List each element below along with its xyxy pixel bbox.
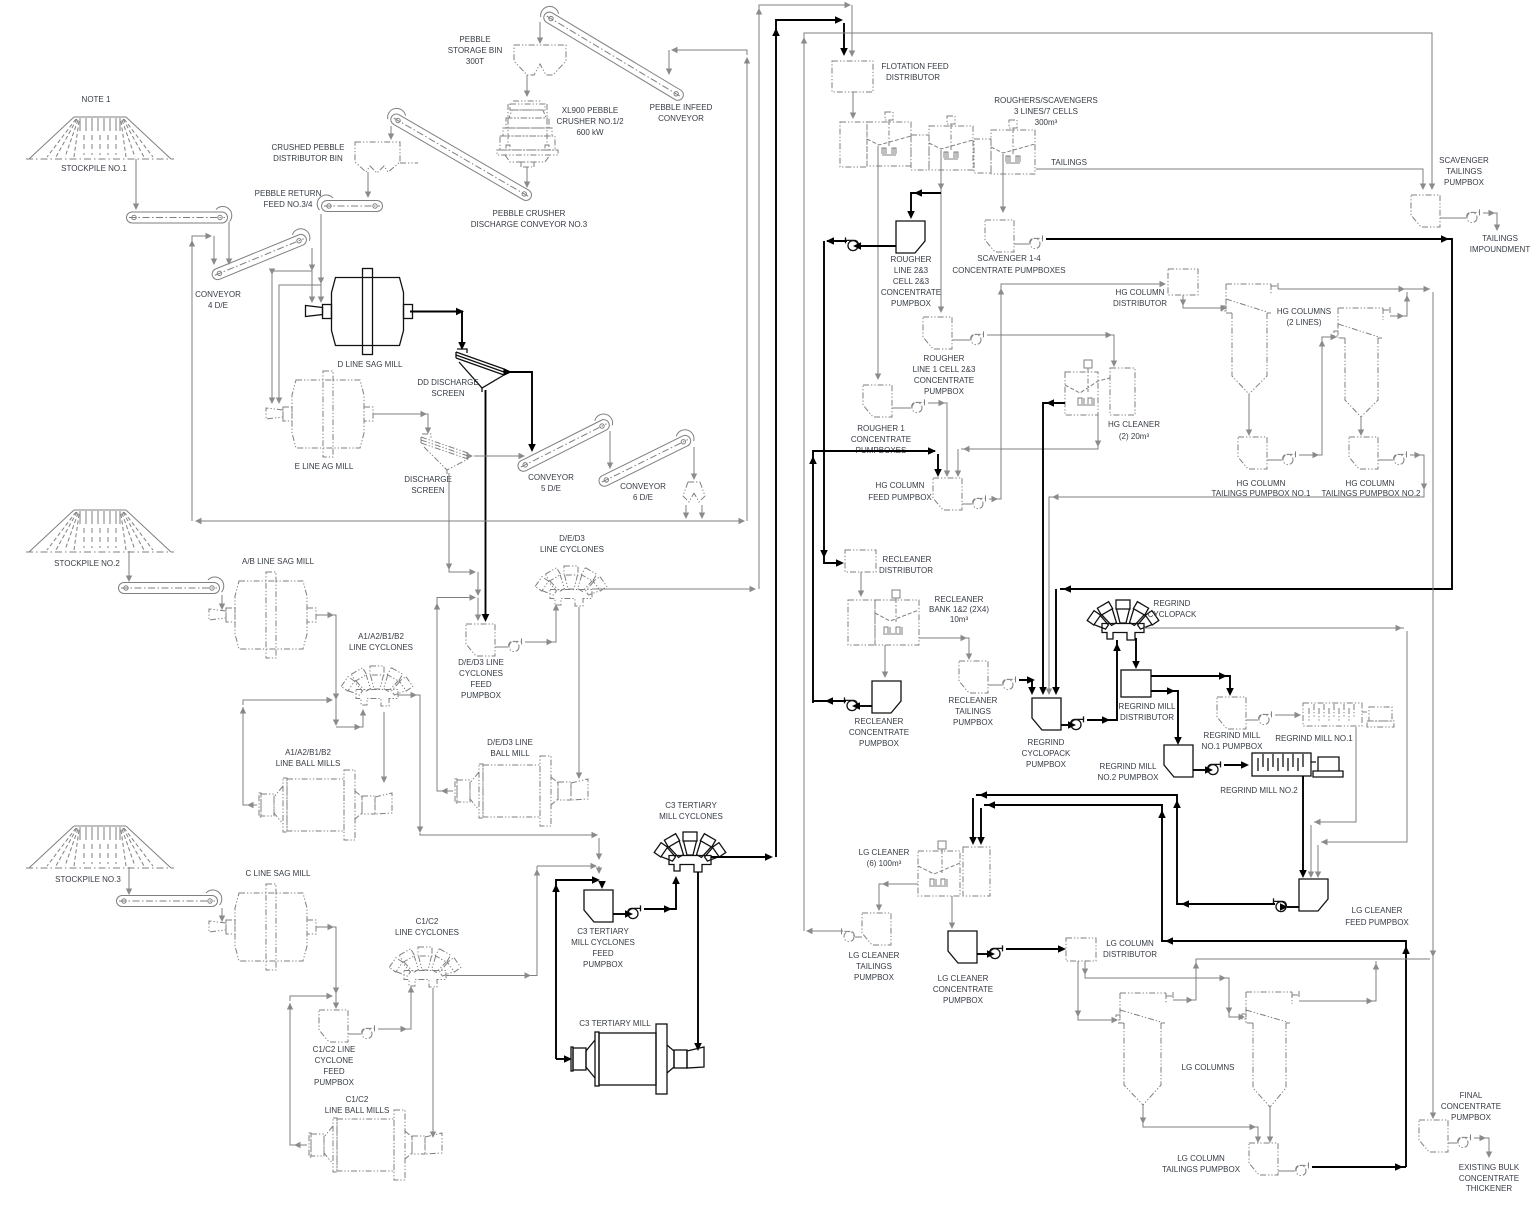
wire C3 mill discharge riser to pumpbox — [552, 876, 606, 1059]
HG column no.2 — [1334, 307, 1390, 417]
wire pebble feed riser to infeed conveyor — [666, 47, 750, 75]
wire LG col1 underflow to tailings pumpbox — [1140, 1105, 1261, 1143]
D/E/D3 line cyclones — [535, 566, 607, 606]
HG cleaner left cell — [1065, 360, 1135, 415]
wire pebble infeed conveyor discharge to storage bin — [537, 22, 543, 44]
wire LG col2 underflow to tailings pumpbox — [1267, 1107, 1273, 1143]
rougher line 2&3 cell 2&3 concentrate pumpbox — [896, 221, 925, 253]
wire cell3 concentrate downcomer — [1000, 154, 1006, 213]
wire distributor to recleaner bank — [858, 572, 864, 597]
wire conveyor5 to conveyor6 — [607, 431, 613, 469]
wire LG column tailings return to LG cleaner (black line A) — [977, 801, 1410, 1167]
conveyor 5 D/E — [514, 411, 615, 473]
wire A ball mill discharge riser — [243, 707, 257, 808]
LG cleaner feed pumpbox — [1299, 879, 1328, 911]
conveyor sp3 — [117, 890, 222, 907]
rougher feed box 1 — [840, 122, 867, 167]
wire recleaner tailings pump to regrind pumpbox (black) — [1019, 676, 1036, 695]
pump regrind no.1 — [1259, 711, 1273, 724]
wire cell2 concentrate downcomer — [938, 150, 944, 313]
svg-text:TAILINGS: TAILINGS — [856, 962, 892, 971]
svg-text:TAILINGS PUMPBOX: TAILINGS PUMPBOX — [1162, 1165, 1241, 1174]
svg-text:CYCLONES: CYCLONES — [459, 669, 503, 678]
svg-text:ROUGHER 1: ROUGHER 1 — [857, 424, 905, 433]
svg-text:STOCKPILE NO.3: STOCKPILE NO.3 — [55, 875, 121, 884]
svg-text:PUMPBOX: PUMPBOX — [1026, 760, 1067, 769]
pump regrind cyclopack — [1071, 716, 1085, 729]
regrind mill distributor — [1121, 670, 1151, 697]
wire pebble return right riser — [746, 58, 748, 521]
regrind cyclopack pumpbox — [1032, 698, 1061, 730]
svg-text:FEED: FEED — [470, 680, 492, 689]
svg-text:FEED PUMPBOX: FEED PUMPBOX — [868, 493, 932, 502]
svg-text:LG CLEANER: LG CLEANER — [938, 974, 989, 983]
wire distributor to regrind mill no.2 pumpbox (black) — [1151, 687, 1182, 745]
LG column no.1 — [1116, 992, 1173, 1105]
svg-text:300m³: 300m³ — [1035, 118, 1058, 127]
svg-text:PEBBLE CRUSHER: PEBBLE CRUSHER — [493, 209, 566, 218]
svg-text:FINAL: FINAL — [1460, 1091, 1483, 1100]
svg-text:HG COLUMN: HG COLUMN — [1346, 479, 1395, 488]
svg-text:CONCENTRATE: CONCENTRATE — [849, 728, 909, 737]
svg-text:IMPOUNDMENT: IMPOUNDMENT — [1470, 245, 1531, 254]
rougher cell unit 3 — [991, 120, 1035, 174]
wire LG col tailings pump to riser (black) — [1312, 1163, 1406, 1171]
svg-text:CONCENTRATE: CONCENTRATE — [1459, 1174, 1519, 1183]
svg-text:SCAVENGER 1-4: SCAVENGER 1-4 — [977, 254, 1041, 263]
wire pebble return header line — [195, 518, 745, 524]
svg-text:PUMPBOX: PUMPBOX — [891, 299, 932, 308]
wire bin to pebble return conveyor — [365, 172, 371, 198]
wire pebble return conveyor discharge to mills — [318, 214, 324, 303]
HG column tailings pumpbox no.1 — [1238, 437, 1267, 469]
D line SAG mill — [306, 269, 413, 355]
svg-text:C3 TERTIARY: C3 TERTIARY — [665, 801, 717, 810]
svg-text:CONCENTRATE: CONCENTRATE — [914, 376, 974, 385]
crushed pebble distributor bin — [355, 142, 418, 173]
svg-text:CYCLOPACK: CYCLOPACK — [1022, 749, 1071, 758]
pump rougher1 conc — [912, 399, 926, 412]
pebble storage bin — [514, 45, 566, 75]
wire pump to cyclones — [525, 604, 559, 645]
svg-text:C1/C2: C1/C2 — [416, 917, 439, 926]
LG cleaner tailings pumpbox — [862, 913, 891, 945]
wire pump to regrind mill no.1 — [1275, 712, 1301, 718]
svg-text:FEED: FEED — [323, 1067, 345, 1076]
svg-text:STOCKPILE NO.2: STOCKPILE NO.2 — [54, 559, 120, 568]
svg-text:(2 LINES): (2 LINES) — [1286, 318, 1321, 327]
conveyor sp2 — [119, 577, 224, 594]
svg-text:NO.2 PUMPBOX: NO.2 PUMPBOX — [1098, 773, 1160, 782]
wire rougher line1 pump to HG cleaner — [987, 332, 1117, 367]
svg-text:DISTRIBUTOR: DISTRIBUTOR — [1113, 299, 1167, 308]
scavenger tailings pumpbox — [1411, 195, 1440, 227]
wire regrind mill no.2 product down (black) — [1299, 776, 1307, 878]
svg-text:SCREEN: SCREEN — [431, 389, 465, 398]
wire stockpile1 to conveyor1 — [133, 159, 139, 210]
svg-text:ROUGHERS/SCAVENGERS: ROUGHERS/SCAVENGERS — [994, 96, 1097, 105]
svg-text:TAILINGS: TAILINGS — [1051, 158, 1087, 167]
svg-text:HG COLUMN: HG COLUMN — [1116, 288, 1165, 297]
wire D mill discharge to DD screen — [410, 308, 466, 350]
LG cleaner concentrate pumpbox — [948, 931, 977, 963]
svg-text:FLOTATION FEED: FLOTATION FEED — [881, 62, 948, 71]
wire recleaner concentrate to pumpbox — [882, 645, 888, 678]
conveyor 6 D/E — [595, 427, 697, 488]
svg-text:DISTRIBUTOR BIN: DISTRIBUTOR BIN — [273, 154, 343, 163]
svg-text:D/E/D3 LINE: D/E/D3 LINE — [487, 738, 533, 747]
svg-text:PEBBLE RETURN: PEBBLE RETURN — [255, 189, 322, 198]
svg-text:PUMPBOX: PUMPBOX — [943, 996, 984, 1005]
svg-text:LG COLUMN: LG COLUMN — [1177, 1154, 1225, 1163]
pump rougher line1 conc — [971, 331, 985, 344]
svg-text:CONCENTRATE: CONCENTRATE — [851, 435, 911, 444]
svg-text:CONCENTRATE PUMPBOXES: CONCENTRATE PUMPBOXES — [952, 266, 1065, 275]
pump LG cleaner tailings — [841, 928, 855, 941]
svg-text:ROUGHER: ROUGHER — [924, 354, 965, 363]
wire LG cleaner conc pump to LG column distributor — [1006, 945, 1066, 953]
svg-text:DISCHARGE CONVEYOR NO.3: DISCHARGE CONVEYOR NO.3 — [471, 220, 588, 229]
wire cell2 tap to rougher 2&3 pumpbox (black) — [907, 189, 941, 219]
wire HG col1 overflow to final conc line — [1278, 286, 1436, 1119]
stockpile no.3 — [26, 826, 174, 868]
wire C3 cyclone underflow to mill — [694, 872, 702, 1051]
wire conveyor to A/B mill — [219, 595, 225, 610]
wire ball mill discharge riser — [437, 601, 453, 794]
svg-text:PUMPBOX: PUMPBOX — [461, 691, 502, 700]
wire pump to C3 cyclones — [644, 876, 680, 913]
wire DD screen oversize to conveyor 5 — [504, 368, 536, 452]
wire conveyor1 discharge to conveyor 4 tail — [226, 222, 232, 265]
pump scavenger conc — [1030, 235, 1044, 248]
wire recleaner conc pump to HG riser — [813, 697, 846, 705]
svg-text:300T: 300T — [466, 57, 484, 66]
wire storage bin to crusher — [524, 75, 530, 97]
regrind mill no.1 — [1303, 703, 1394, 727]
svg-text:600 kW: 600 kW — [576, 128, 604, 137]
regrind mill no.2 — [1252, 753, 1343, 777]
regrind cyclopack — [1087, 600, 1159, 640]
rougher line 1 cell 2&3 concentrate pumpbox — [923, 317, 952, 349]
wire LG cleaner tailings to pumpbox — [876, 881, 918, 911]
HG column no.1 — [1222, 283, 1278, 394]
wire ball mill riser to junction — [434, 594, 481, 621]
wire recleaner conc riser to HG col feed pumpbox (black) — [809, 447, 942, 700]
svg-text:CONVEYOR: CONVEYOR — [658, 114, 704, 123]
wire cell1 concentrate downcomer — [875, 146, 881, 380]
pump C1/C2 cyclone feed — [362, 1025, 376, 1038]
wire C cyclones underflow to ball mill — [430, 988, 436, 1138]
wire HG cleaner concentrate to regrind (black) — [1039, 399, 1065, 695]
wire regrind mill no.1 product down — [1308, 727, 1356, 878]
wire LG cleaner concentrate down — [949, 896, 955, 929]
wire A/B mill discharge down — [316, 612, 339, 726]
svg-text:(2) 20m³: (2) 20m³ — [1119, 432, 1150, 441]
svg-text:LINE 2&3: LINE 2&3 — [894, 266, 929, 275]
svg-text:CONCENTRATE: CONCENTRATE — [1441, 1102, 1501, 1111]
rougher connector box 1 — [911, 135, 929, 170]
wire joint to A cyclones feed — [336, 709, 366, 730]
recleaner tailings pumpbox — [959, 661, 988, 693]
wire A ball mill riser join — [240, 697, 333, 714]
svg-text:6 D/E: 6 D/E — [633, 493, 653, 502]
rougher cell unit 1 — [867, 112, 911, 166]
scavenger 1-4 concentrate pumpboxes — [985, 220, 1014, 252]
regrind mill no.1 pumpbox — [1217, 697, 1246, 729]
wire branch to E mill feed 2 — [276, 285, 321, 404]
wire LG col1 overflow — [1173, 959, 1430, 1003]
svg-text:REGRIND MILL NO.2: REGRIND MILL NO.2 — [1220, 786, 1298, 795]
regrind mill no.2 pumpbox — [1164, 745, 1193, 777]
XL900 pebble crusher no.1/2 — [497, 101, 558, 167]
svg-text:DISCHARGE: DISCHARGE — [404, 475, 452, 484]
wire scavenger conc to regrind (black) — [1046, 235, 1452, 695]
svg-text:E LINE AG MILL: E LINE AG MILL — [295, 462, 354, 471]
wire cyclopack underflow to regrind mill distributor — [1132, 638, 1140, 669]
wire distributor to regrind mill no.1 pumpbox (black) — [1151, 672, 1234, 696]
wire E screen oversize to conveyor 5 — [467, 453, 526, 459]
svg-text:LINE BALL MILLS: LINE BALL MILLS — [325, 1106, 390, 1115]
svg-text:REGRIND: REGRIND — [1154, 599, 1191, 608]
wire conveyor3 discharge to bin — [388, 126, 394, 140]
wire C3 cyclone OF riser to flotation distributor (black) — [772, 16, 848, 857]
svg-text:CRUSHED PEBBLE: CRUSHED PEBBLE — [272, 143, 345, 152]
recleaner concentrate pumpbox — [872, 681, 901, 713]
rougher connector box 2 — [974, 139, 991, 173]
svg-text:DD DISCHARGE: DD DISCHARGE — [417, 378, 478, 387]
svg-text:CELL 2&3: CELL 2&3 — [893, 277, 930, 286]
pump recleaner tailings — [1003, 676, 1017, 689]
svg-text:HG COLUMN: HG COLUMN — [1237, 479, 1286, 488]
LG column no.2 — [1242, 991, 1299, 1107]
C line SAG mill — [209, 884, 316, 970]
wire A cyclones overflow — [398, 692, 423, 833]
svg-text:PEBBLE: PEBBLE — [459, 35, 490, 44]
svg-text:CRUSHER NO.1/2: CRUSHER NO.1/2 — [556, 117, 624, 126]
wire HG col1 underflow — [1246, 394, 1252, 436]
svg-text:LG CLEANER: LG CLEANER — [859, 848, 910, 857]
stockpile no.1 — [26, 117, 174, 159]
svg-text:RECLEANER: RECLEANER — [949, 696, 998, 705]
svg-text:DISTRIBUTOR: DISTRIBUTOR — [1120, 713, 1174, 722]
wire rougher 2&3 conc riser to recleaner distributor (black) — [820, 241, 844, 567]
wire conveyor6 to splitter — [691, 447, 697, 480]
pump LG cleaner feed — [1273, 898, 1287, 911]
svg-text:CYCLOPACK: CYCLOPACK — [1148, 610, 1197, 619]
svg-text:PUMPBOX: PUMPBOX — [583, 960, 624, 969]
HG column tailings pumpbox no.2 — [1349, 437, 1378, 469]
svg-text:REGRIND MILL: REGRIND MILL — [1204, 731, 1261, 740]
DD discharge screen — [456, 349, 504, 392]
wire A overflow transfer line to C3 pumpbox — [420, 832, 602, 874]
pump HG col tailings no.1 — [1283, 451, 1297, 464]
wire conveyor4 branch to E mill feed — [269, 269, 312, 405]
C1/C2 line cyclone feed pumpbox — [319, 1010, 348, 1042]
pump recleaner conc — [844, 697, 858, 710]
pump LG cleaner conc — [990, 945, 1004, 958]
wire C3 cyclone overflow to flotation riser — [711, 853, 773, 861]
svg-text:DISTRIBUTOR: DISTRIBUTOR — [1103, 950, 1157, 959]
svg-text:A1/A2/B1/B2: A1/A2/B1/B2 — [358, 632, 404, 641]
wire pebble return riser to conveyor 4 tail — [189, 233, 217, 265]
pump rougher 2&3 conc — [845, 237, 859, 250]
svg-text:LINE CYCLONES: LINE CYCLONES — [349, 643, 413, 652]
wire HG cleaner tailings to HG col feed pumpbox — [955, 415, 1101, 477]
wire HG col2 underflow — [1358, 417, 1364, 436]
LG column distributor — [1066, 938, 1096, 961]
svg-text:C1/C2 LINE: C1/C2 LINE — [313, 1045, 356, 1054]
pebble splitter — [683, 482, 705, 502]
svg-text:LINE BALL MILLS: LINE BALL MILLS — [276, 759, 341, 768]
pebble crusher discharge conveyor no.3 — [385, 105, 536, 202]
A1/A2/B1/B2 line cyclones — [341, 666, 413, 706]
svg-text:C LINE SAG MILL: C LINE SAG MILL — [246, 869, 311, 878]
wire A cyclones underflow to ball mill — [381, 712, 387, 783]
svg-text:DISTRIBUTOR: DISTRIBUTOR — [879, 566, 933, 575]
flotation feed distributor — [832, 61, 873, 92]
wire HG col2 overflow riser — [1390, 292, 1410, 319]
pump final concentrate — [1458, 1134, 1472, 1147]
wire LG col2 overflow — [1299, 961, 1379, 1004]
svg-text:A1/A2/B1/B2: A1/A2/B1/B2 — [285, 748, 331, 757]
C3 tertiary mill cyclones — [654, 832, 726, 872]
svg-text:NOTE 1: NOTE 1 — [82, 95, 111, 104]
wire stockpile2 to conveyor — [126, 551, 132, 582]
svg-text:LG CLEANER: LG CLEANER — [1352, 906, 1403, 915]
svg-text:4 D/E: 4 D/E — [208, 301, 228, 310]
svg-text:MILL CYCLONES: MILL CYCLONES — [571, 938, 635, 947]
wire C3 mill feed from left riser — [556, 1055, 572, 1063]
wire splitter legs to pebble return line — [683, 505, 705, 519]
svg-text:CONCENTRATE: CONCENTRATE — [933, 985, 993, 994]
wire distributor to LG column no.2 — [1082, 961, 1245, 1020]
svg-text:PUMPBOX: PUMPBOX — [953, 718, 994, 727]
wire C ball mill discharge riser — [290, 1003, 307, 1148]
pebble return feed conveyor no.3/4 — [317, 195, 382, 212]
svg-text:D/E/D3 LINE: D/E/D3 LINE — [458, 658, 504, 667]
LG cleaner bank — [918, 841, 990, 896]
svg-text:LG COLUMN: LG COLUMN — [1106, 939, 1154, 948]
svg-text:TAILINGS: TAILINGS — [955, 707, 991, 716]
wire LG cleaner tailings riser to scavenger tailings pumpbox — [801, 33, 1435, 931]
svg-text:HG COLUMN: HG COLUMN — [876, 481, 925, 490]
wire pebble return left riser — [191, 243, 193, 521]
wire cyclopack pump riser to cyclopack — [1087, 640, 1121, 724]
stockpile no.2 — [26, 510, 174, 552]
wire C mill discharge down — [316, 924, 339, 1009]
wire distributor to rougher cell 1 — [850, 92, 856, 119]
C1/C2 line cyclones — [389, 947, 461, 987]
svg-text:NO.1 PUMPBOX: NO.1 PUMPBOX — [1202, 742, 1264, 751]
wire crusher to discharge conveyor — [524, 167, 530, 188]
svg-text:DISTRIBUTOR: DISTRIBUTOR — [886, 73, 940, 82]
svg-text:C1/C2: C1/C2 — [346, 1095, 369, 1104]
svg-text:HG COLUMNS: HG COLUMNS — [1277, 307, 1331, 316]
wire stockpile3 to conveyor — [126, 867, 132, 895]
svg-text:PUMPBOX: PUMPBOX — [314, 1078, 355, 1087]
wire to tailings impoundment — [1483, 210, 1500, 231]
wire cyclone underflow to ball mill — [576, 607, 582, 779]
svg-text:LG CLEANER: LG CLEANER — [849, 951, 900, 960]
recleaner bank 1&2 — [848, 590, 919, 645]
pebble infeed conveyor — [538, 3, 688, 102]
svg-text:ROUGHER: ROUGHER — [891, 255, 932, 264]
pump C3 cyclones feed — [628, 905, 642, 918]
wire C ball mill riser join — [287, 993, 333, 1010]
svg-text:STOCKPILE NO.1: STOCKPILE NO.1 — [61, 164, 127, 173]
wire DD screen undersize to D/E/D3 pumpbox (long black drop) — [482, 390, 490, 622]
svg-text:BALL MILL: BALL MILL — [490, 749, 530, 758]
svg-text:C3 TERTIARY: C3 TERTIARY — [577, 927, 629, 936]
C3 tertiary mill cyclones feed pumpbox — [584, 890, 613, 922]
svg-text:RECLEANER: RECLEANER — [883, 555, 932, 564]
svg-text:PUMPBOX: PUMPBOX — [1451, 1113, 1492, 1122]
svg-text:(6) 100m³: (6) 100m³ — [867, 859, 902, 868]
wire E screen undersize to junction — [446, 473, 481, 596]
svg-text:CONVEYOR: CONVEYOR — [195, 290, 241, 299]
LG column tailings pumpbox — [1249, 1143, 1278, 1175]
wire DE cyclone OF riser to flotation distributor — [756, 2, 855, 589]
svg-text:LINE CYCLONES: LINE CYCLONES — [540, 545, 604, 554]
svg-text:PUMPBOX: PUMPBOX — [924, 387, 965, 396]
svg-text:LG COLUMNS: LG COLUMNS — [1182, 1063, 1235, 1072]
svg-text:PEBBLE INFEED: PEBBLE INFEED — [650, 103, 713, 112]
wire distributor to LG column no.1 — [1075, 961, 1118, 1023]
wire LG cleaner feed pump to LG cleaner (black line B) — [969, 791, 1275, 908]
svg-text:REGRIND MILL: REGRIND MILL — [1100, 762, 1157, 771]
svg-text:CYCLONE: CYCLONE — [315, 1056, 354, 1065]
svg-text:CONVEYOR: CONVEYOR — [528, 473, 574, 482]
svg-text:SCREEN: SCREEN — [411, 486, 445, 495]
pump LG column tailings — [1296, 1162, 1310, 1175]
D/E/D3 line cyclones feed pumpbox — [466, 624, 495, 656]
svg-text:RECLEANER: RECLEANER — [935, 595, 984, 604]
wire final conc pump to thickener — [1474, 1135, 1492, 1158]
svg-text:PUMPBOX: PUMPBOX — [854, 973, 895, 982]
recleaner distributor — [845, 550, 876, 572]
pump HG column feed — [973, 495, 987, 508]
rougher 1 concentrate pumpboxes — [863, 385, 892, 417]
svg-text:A/B LINE SAG MILL: A/B LINE SAG MILL — [242, 557, 315, 566]
wire conveyor4 head to D mill feed — [309, 248, 315, 303]
wire recleaner tailings to pumpbox — [919, 635, 972, 660]
svg-text:CONCENTRATE: CONCENTRATE — [881, 288, 941, 297]
A/B line SAG mill — [209, 572, 316, 658]
svg-text:BANK 1&2 (2X4): BANK 1&2 (2X4) — [929, 605, 989, 614]
svg-text:EXISTING BULK: EXISTING BULK — [1459, 1163, 1520, 1172]
pump scavenger tailings — [1467, 209, 1481, 222]
svg-text:REGRIND MILL NO.1: REGRIND MILL NO.1 — [1275, 734, 1353, 743]
HG column feed pumpbox — [933, 478, 962, 510]
pump regrind no.2 — [1208, 761, 1222, 774]
svg-text:TAILINGS: TAILINGS — [1446, 167, 1482, 176]
svg-text:3 LINES/7 CELLS: 3 LINES/7 CELLS — [1014, 107, 1078, 116]
svg-text:MILL CYCLONES: MILL CYCLONES — [659, 812, 723, 821]
svg-text:PUMPBOX: PUMPBOX — [1444, 178, 1485, 187]
svg-text:FEED: FEED — [592, 949, 614, 958]
svg-text:REGRIND MILL: REGRIND MILL — [1119, 702, 1176, 711]
svg-text:HG CLEANER: HG CLEANER — [1108, 420, 1160, 429]
C3 tertiary mill — [571, 1024, 704, 1094]
svg-text:10m³: 10m³ — [950, 615, 969, 624]
wire rougher1 pump to HG col feed pumpbox — [928, 400, 950, 477]
D/E/D3 line ball mill — [455, 756, 588, 826]
svg-text:RECLEANER: RECLEANER — [855, 717, 904, 726]
pump D/E/D3 cyclone feed — [509, 638, 523, 651]
svg-text:LINE 1 CELL 2&3: LINE 1 CELL 2&3 — [913, 365, 976, 374]
svg-text:FEED NO.3/4: FEED NO.3/4 — [264, 200, 313, 209]
svg-text:XL900 PEBBLE: XL900 PEBBLE — [562, 106, 618, 115]
